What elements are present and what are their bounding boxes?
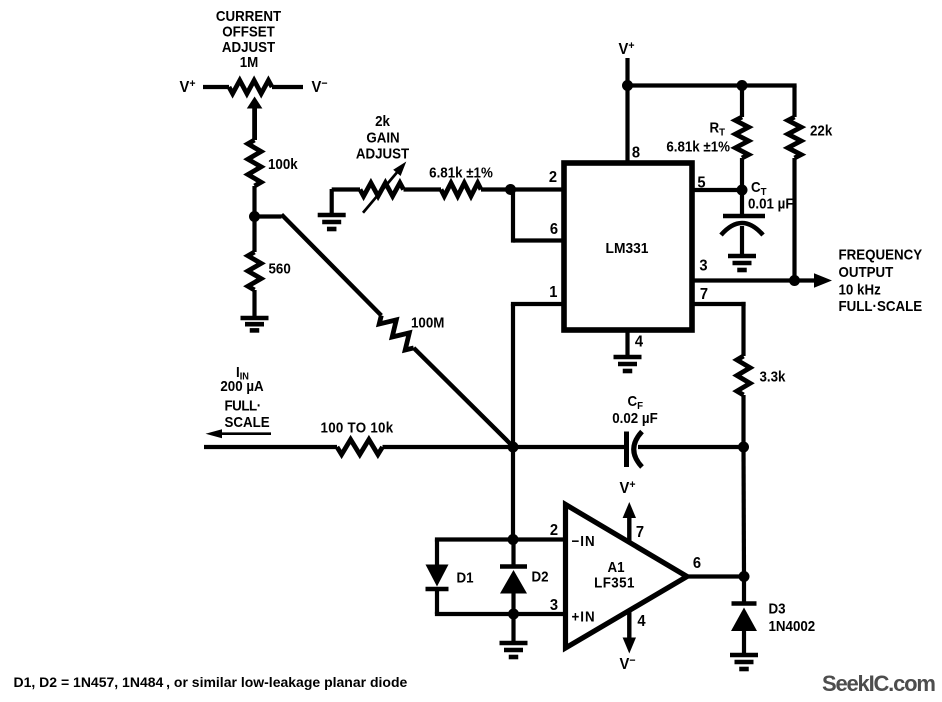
svg-text:FULL·SCALE: FULL·SCALE <box>839 297 923 314</box>
svg-text:100M: 100M <box>411 314 444 331</box>
svg-text:7: 7 <box>636 523 644 541</box>
svg-text:A1: A1 <box>607 558 624 575</box>
svg-text:OFFSET: OFFSET <box>222 23 275 40</box>
svg-text:SCALE: SCALE <box>225 413 270 430</box>
svg-text:1M: 1M <box>240 53 259 70</box>
svg-text:D2: D2 <box>532 568 549 585</box>
svg-text:−IN: −IN <box>572 532 596 549</box>
svg-text:3.3k: 3.3k <box>760 368 786 385</box>
svg-text:6.81k ±1%: 6.81k ±1% <box>666 138 730 155</box>
svg-text:10 kHz: 10 kHz <box>839 281 881 298</box>
svg-text:0.02 µF: 0.02 µF <box>612 409 657 426</box>
svg-text:6: 6 <box>693 554 701 572</box>
svg-text:100k: 100k <box>268 155 298 172</box>
svg-text:4: 4 <box>635 333 644 351</box>
svg-text:2: 2 <box>550 521 558 539</box>
svg-text:7: 7 <box>700 285 708 303</box>
svg-text:3: 3 <box>699 257 707 275</box>
svg-text:6.81k ±1%: 6.81k ±1% <box>429 164 493 181</box>
svg-text:4: 4 <box>637 612 646 630</box>
svg-text:1: 1 <box>549 283 558 301</box>
svg-text:FULL·: FULL· <box>225 397 261 414</box>
svg-text:LM331: LM331 <box>606 241 649 258</box>
svg-text:CURRENT: CURRENT <box>216 7 282 24</box>
svg-text:+IN: +IN <box>572 608 596 625</box>
svg-text:FREQUENCY: FREQUENCY <box>839 246 923 263</box>
svg-text:0.01 µF: 0.01 µF <box>748 195 793 212</box>
svg-text:22k: 22k <box>810 122 832 139</box>
svg-text:6: 6 <box>550 220 558 238</box>
svg-text:LF351: LF351 <box>594 574 635 591</box>
svg-text:2k: 2k <box>375 112 390 129</box>
svg-text:D1, D2 = 1N457, 1N484 , or sim: D1, D2 = 1N457, 1N484 , or similar low-l… <box>14 674 408 690</box>
svg-text:200 µA: 200 µA <box>220 377 263 394</box>
svg-text:3: 3 <box>550 596 558 614</box>
svg-text:560: 560 <box>269 260 291 277</box>
svg-text:D3: D3 <box>769 600 786 617</box>
svg-text:OUTPUT: OUTPUT <box>839 263 894 280</box>
svg-text:D1: D1 <box>457 569 474 586</box>
svg-text:1N4002: 1N4002 <box>769 617 816 634</box>
svg-text:ADJUST: ADJUST <box>356 145 410 162</box>
svg-text:2: 2 <box>549 168 557 186</box>
svg-text:100 TO 10k: 100 TO 10k <box>321 419 394 436</box>
svg-text:SeekIC.com: SeekIC.com <box>822 671 935 696</box>
svg-text:GAIN: GAIN <box>366 129 399 146</box>
svg-text:8: 8 <box>632 144 641 162</box>
